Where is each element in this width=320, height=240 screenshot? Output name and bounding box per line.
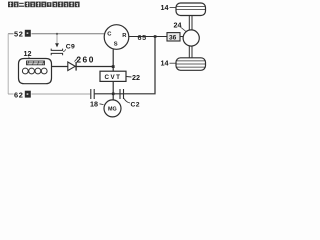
wire CVT down to secondary shaft bbox=[112, 81, 114, 99]
label 52a bbox=[14, 29, 32, 38]
label 22 leader bbox=[127, 76, 132, 79]
gear box 36 bbox=[167, 33, 180, 41]
wire secondary shaft (dark section) bbox=[95, 93, 156, 95]
wire left vertical bus bbox=[7, 34, 9, 94]
wire vertical from output junction down bbox=[154, 37, 156, 94]
svg-text:24: 24 bbox=[174, 21, 182, 30]
svg-text:36: 36 bbox=[169, 35, 177, 42]
engine 12 body bbox=[19, 59, 52, 84]
wire 62a horizontal line bbox=[8, 93, 90, 95]
svg-text:260: 260 bbox=[76, 55, 94, 65]
CVT box 22 bbox=[100, 71, 126, 81]
wire sun shaft vertical bbox=[112, 49, 114, 71]
svg-text:18: 18 bbox=[90, 100, 98, 109]
svg-text:65: 65 bbox=[138, 33, 147, 42]
one-way clutch 260 symbol bbox=[68, 62, 75, 71]
axle lower (double line) bbox=[188, 46, 190, 58]
brake C9 plates bbox=[51, 49, 62, 51]
brake C9 drop wire bbox=[56, 34, 58, 43]
axle upper (double line) bbox=[188, 16, 190, 31]
title text (Chinese caption, simulated glyph blocks) bbox=[8, 2, 80, 8]
junction secondary shaft bbox=[112, 93, 115, 96]
wheel 14 top bbox=[176, 3, 206, 16]
label C2 leader bbox=[124, 99, 130, 104]
wheel 14 bottom bbox=[176, 58, 206, 71]
clutch left plates bbox=[90, 89, 92, 99]
svg-text:52: 52 bbox=[14, 30, 23, 39]
wire 52a horizontal line bbox=[8, 33, 106, 35]
differential 24 circle bbox=[183, 30, 199, 46]
brake C9 actuator arrow bbox=[55, 43, 59, 47]
junction output line bbox=[154, 35, 157, 38]
wire engine output shaft bbox=[52, 66, 114, 68]
junction engine shaft / sun shaft bbox=[112, 65, 115, 68]
svg-text:CVT: CVT bbox=[105, 74, 122, 81]
clutch C2 plates bbox=[119, 89, 121, 99]
svg-text:MG: MG bbox=[108, 107, 117, 113]
label 62a bbox=[14, 89, 32, 98]
svg-text:C2: C2 bbox=[131, 102, 140, 109]
engine intake rectangle bbox=[27, 61, 45, 65]
svg-text:S: S bbox=[114, 41, 118, 47]
svg-text:14: 14 bbox=[161, 59, 169, 68]
planetary gear set circle bbox=[104, 25, 129, 50]
svg-text:14: 14 bbox=[161, 3, 169, 12]
label 260 leader bbox=[75, 57, 79, 62]
wire ring gear to differential bbox=[129, 36, 184, 38]
label C9 leader bbox=[63, 49, 66, 51]
svg-text:22: 22 bbox=[132, 73, 140, 82]
svg-text:12: 12 bbox=[24, 49, 32, 58]
svg-text:62: 62 bbox=[14, 90, 23, 99]
engine cylinders bbox=[22, 68, 28, 74]
svg-text:C9: C9 bbox=[66, 44, 75, 51]
motor generator MG circle bbox=[104, 100, 121, 117]
